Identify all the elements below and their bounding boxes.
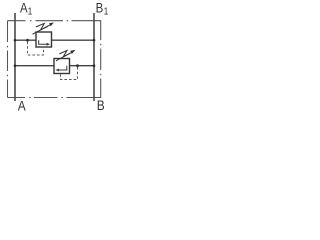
svg-text:B1: B1 [96, 1, 109, 17]
junction dot node B lower [93, 64, 96, 67]
enclosure boundary (dash-dot frame) [8, 21, 102, 98]
relief valve V1 internal flow path arrow [39, 40, 47, 44]
wire: upper valve inlet from A-line [15, 39, 36, 41]
relief valve V1 body (upper) [36, 32, 52, 47]
junction dot pilot tap V2 [76, 64, 79, 67]
adjustable spring arrow of V1 [33, 23, 52, 34]
svg-text:A: A [18, 97, 26, 113]
frame bottom edge [8, 97, 102, 99]
pilot line (dashed) of V2 [61, 67, 78, 80]
junction dot node A upper [14, 39, 17, 42]
frame top edge [8, 20, 102, 22]
wire: upper valve outlet to B-line [52, 39, 95, 41]
pilot line (dashed) of V1 [28, 42, 44, 56]
wire: port line B1-B (right vertical) [93, 13, 95, 101]
wire: lower valve line on A side [15, 65, 54, 67]
svg-text:B: B [97, 97, 105, 113]
relief valve V2 internal flow path arrow [59, 66, 67, 70]
svg-text:A1: A1 [20, 1, 32, 17]
frame right edge [100, 21, 102, 98]
wire: lower valve line on B side [70, 65, 95, 67]
junction dot node A lower [14, 64, 17, 67]
frame left edge [7, 21, 9, 98]
junction dot pilot tap V1 [26, 39, 29, 42]
relief valve V2 body (lower) [54, 59, 70, 74]
junction dot node B upper [93, 39, 96, 42]
adjustable spring arrow of V2 [56, 51, 73, 61]
wire: port line A1-A (left vertical) [14, 13, 16, 101]
